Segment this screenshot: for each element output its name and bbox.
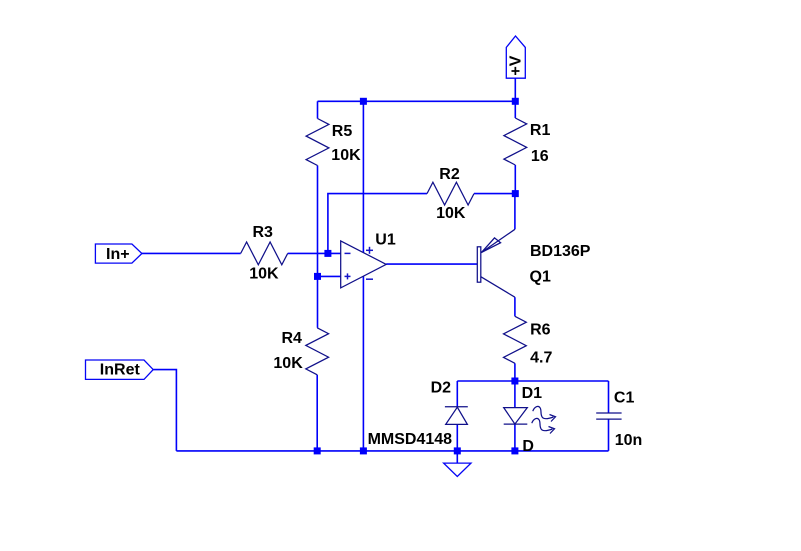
svg-text:U1: U1 xyxy=(375,232,396,249)
svg-text:R2: R2 xyxy=(439,166,460,183)
svg-text:MMSD4148: MMSD4148 xyxy=(368,431,453,448)
svg-text:BD136P: BD136P xyxy=(530,243,591,260)
svg-text:D2: D2 xyxy=(431,380,452,397)
svg-text:R1: R1 xyxy=(530,122,551,139)
svg-text:10K: 10K xyxy=(331,147,361,164)
svg-text:D: D xyxy=(522,438,534,455)
svg-text:C1: C1 xyxy=(614,390,635,407)
svg-text:10K: 10K xyxy=(436,205,466,222)
svg-text:+V: +V xyxy=(508,55,525,75)
svg-text:4.7: 4.7 xyxy=(530,350,552,367)
svg-text:Q1: Q1 xyxy=(530,269,551,286)
svg-text:10K: 10K xyxy=(273,355,303,372)
svg-text:In+: In+ xyxy=(106,246,130,263)
svg-text:R6: R6 xyxy=(530,321,551,338)
svg-text:R4: R4 xyxy=(282,330,303,347)
svg-text:10K: 10K xyxy=(249,265,279,282)
svg-text:D1: D1 xyxy=(522,385,543,402)
svg-text:InRet: InRet xyxy=(100,362,141,379)
svg-text:16: 16 xyxy=(531,148,549,165)
svg-text:R3: R3 xyxy=(253,224,274,241)
svg-text:10n: 10n xyxy=(615,432,643,449)
svg-text:R5: R5 xyxy=(332,123,353,140)
